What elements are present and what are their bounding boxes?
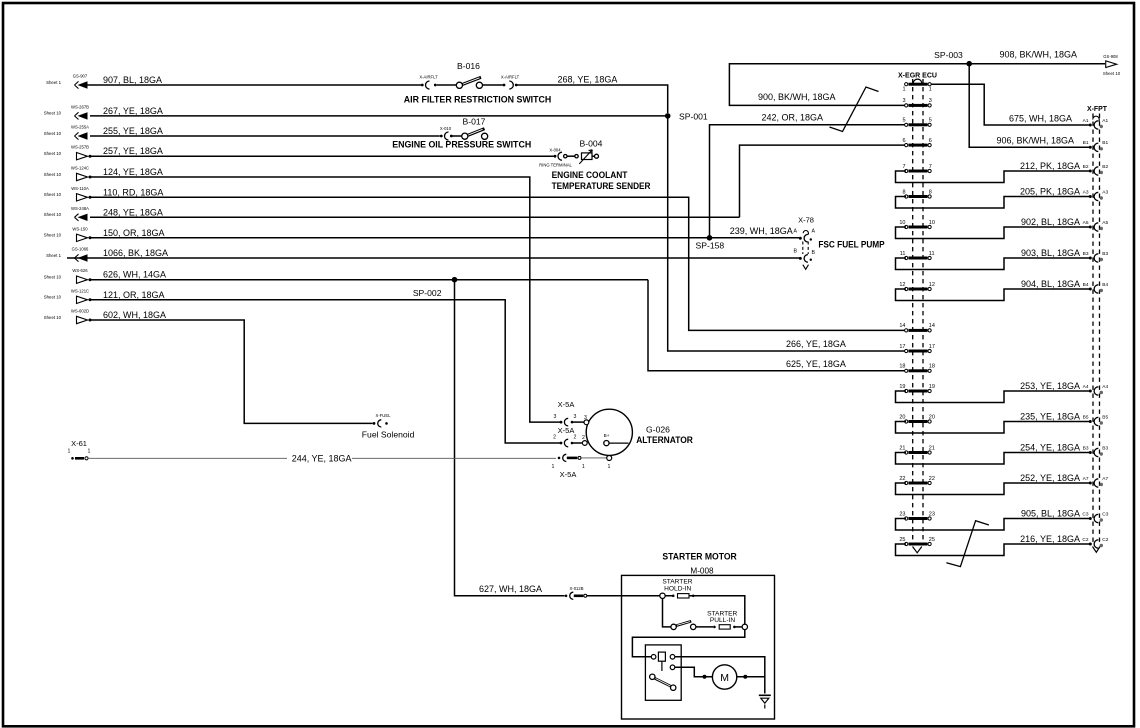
wire relay contact to motor [675, 667, 703, 677]
sheet-ref arrow row 9 wire 1066 [46, 247, 168, 262]
wire 248 riser to pin 6 [740, 145, 907, 217]
wire 244 left segment [88, 457, 287, 459]
starter hold-in terminal [660, 593, 665, 598]
connector X-AIRFLT left of B-016 [421, 84, 424, 87]
svg-text:SP-002: SP-002 [413, 288, 442, 298]
connector X-EGR ECU pin 14 [905, 329, 908, 332]
connector X-FPT pin A3 [1089, 195, 1092, 198]
connector X-FPT pin B3 [1089, 451, 1092, 454]
wire 904 loop X-EGR to X-FPT B4 [896, 289, 1090, 301]
svg-text:625, YE, 18GA: 625, YE, 18GA [786, 359, 846, 369]
svg-text:1: 1 [88, 448, 91, 454]
svg-text:GS-1066: GS-1066 [72, 247, 89, 252]
svg-text:23: 23 [899, 511, 905, 517]
svg-text:906, BK/WH, 18GA: 906, BK/WH, 18GA [996, 135, 1074, 145]
svg-text:Sheet 10: Sheet 10 [44, 295, 62, 300]
connector X-FPT pin B1 [1089, 146, 1092, 149]
svg-text:7: 7 [902, 164, 905, 170]
svg-text:11: 11 [929, 251, 935, 257]
svg-text:1: 1 [929, 87, 932, 93]
junction SP-158 [707, 235, 713, 241]
svg-text:Sheet 10: Sheet 10 [44, 151, 62, 156]
starter relay box [645, 645, 681, 700]
connector X-AIRFLT right of B-016 [503, 84, 506, 87]
svg-text:X-010: X-010 [440, 126, 452, 131]
svg-text:Sheet 1: Sheet 1 [46, 80, 61, 85]
sheet-ref arrow row 7 wire 248 [44, 206, 163, 221]
connector X-FPT pin B3 [1089, 257, 1092, 260]
svg-text:900, BK/WH, 18GA: 900, BK/WH, 18GA [758, 92, 836, 102]
svg-text:X-AIRFLT: X-AIRFLT [419, 74, 438, 79]
svg-text:WS-626: WS-626 [72, 268, 88, 273]
connector X-EGR ECU pin 22 [905, 481, 908, 484]
harness slash mark lower [946, 521, 989, 567]
svg-text:235, YE, 18GA: 235, YE, 18GA [1020, 411, 1080, 421]
sheet-ref arrow row 11 wire 121 [44, 288, 165, 303]
svg-text:FSC FUEL PUMP: FSC FUEL PUMP [818, 240, 884, 250]
svg-text:M: M [720, 672, 729, 684]
svg-text:1066, BK, 18GA: 1066, BK, 18GA [103, 248, 168, 258]
wire 903 loop X-EGR to X-FPT B3 [896, 258, 1090, 270]
svg-text:X-61: X-61 [71, 439, 87, 448]
svg-text:257, YE, 18GA: 257, YE, 18GA [103, 146, 163, 156]
wire 254 loop X-EGR to X-FPT B3 [896, 453, 1090, 465]
wire X-5A pin3 to alternator [572, 421, 585, 423]
connector X-FPT pin B2 [1089, 170, 1092, 173]
wire 239 SP-158 to X-78 A [710, 237, 800, 239]
svg-text:2: 2 [553, 434, 556, 440]
svg-text:Sheet 1: Sheet 1 [46, 253, 61, 258]
svg-text:239, WH, 18GA: 239, WH, 18GA [730, 226, 793, 236]
wire hold-in to pull-in corner [665, 596, 745, 624]
svg-text:B: B [794, 249, 798, 255]
wire 900 loop pin3 to top rail [729, 64, 1105, 106]
wire 255 row to B-017 [90, 135, 440, 137]
connector X-EGR ECU pin 12 [905, 287, 908, 290]
sheet-ref arrow row 6 wire 110 [44, 186, 164, 201]
alternator G-026 body [586, 409, 632, 455]
svg-text:B2: B2 [1102, 164, 1108, 170]
svg-text:Sheet 10: Sheet 10 [44, 172, 62, 177]
svg-text:C3: C3 [1082, 511, 1088, 517]
svg-text:Sheet 10: Sheet 10 [44, 315, 62, 320]
svg-text:675, WH, 18GA: 675, WH, 18GA [1009, 113, 1072, 123]
connector X-EGR ECU pin 19 [905, 389, 908, 392]
svg-text:PULL-IN: PULL-IN [710, 617, 736, 624]
svg-text:ENGINE OIL PRESSURE SWITCH: ENGINE OIL PRESSURE SWITCH [392, 140, 531, 150]
wire SP-001 riser to pin 17 (266) [668, 116, 906, 351]
svg-text:8: 8 [902, 189, 905, 195]
wire 244 right segment [352, 457, 556, 459]
connector X-EGR ECU pin 20 [905, 420, 908, 423]
svg-text:212, PK, 18GA: 212, PK, 18GA [1020, 161, 1080, 171]
svg-text:Sheet 10: Sheet 10 [44, 233, 62, 238]
connector X-EGR ECU pin 1 [905, 83, 908, 86]
svg-text:248, YE, 18GA: 248, YE, 18GA [103, 207, 163, 217]
starter relay blade [650, 674, 655, 679]
svg-text:B3: B3 [1102, 251, 1108, 257]
sheet-ref arrow row 10 wire 626 [44, 268, 166, 283]
connector X-78 pin A [799, 237, 802, 240]
connector X-EGR ECU dashed lines [913, 79, 923, 543]
wire 626 row to corner [90, 279, 648, 281]
starter pull-in junction [742, 624, 747, 629]
svg-text:STARTER MOTOR: STARTER MOTOR [662, 552, 737, 562]
connector X-FPT pin A5 [1089, 226, 1092, 229]
svg-text:21: 21 [899, 445, 905, 451]
svg-text:X-5A: X-5A [558, 426, 575, 435]
svg-text:B3: B3 [1102, 445, 1108, 451]
wire pin1 to X-FPT A1 [930, 84, 1090, 125]
sheet-ref arrow row 12 wire 602 [44, 309, 166, 324]
svg-text:GS-908: GS-908 [1103, 54, 1118, 59]
sheet-ref arrow row 4 wire 257 [44, 145, 163, 160]
svg-text:WS-121C: WS-121C [71, 288, 89, 293]
svg-text:253, YE, 18GA: 253, YE, 18GA [1020, 381, 1080, 391]
wire SP-002 down to starter [455, 280, 565, 596]
connector X-78 end hook [803, 265, 809, 270]
switch B-016 blade [458, 77, 482, 86]
svg-text:Fuel Solenoid: Fuel Solenoid [362, 430, 415, 440]
connector X-FPT pin A7 [1089, 482, 1092, 485]
svg-text:110, RD, 18GA: 110, RD, 18GA [103, 187, 163, 197]
svg-text:A4: A4 [1083, 384, 1089, 390]
wire B-016 to right connector [482, 84, 502, 86]
svg-text:14: 14 [929, 323, 935, 329]
starter pull-in resistor [696, 626, 713, 628]
svg-text:B4: B4 [1102, 282, 1108, 288]
svg-text:121, OR, 18GA: 121, OR, 18GA [103, 290, 165, 300]
connector X-004 of B-004 [554, 155, 557, 158]
wire 248 row [90, 216, 740, 218]
wire 110 row to pin 14 [90, 197, 906, 330]
ground symbol [759, 694, 771, 696]
wire X-012B to starter box [587, 595, 661, 597]
wire 1066 row to X-78 B [67, 257, 799, 259]
svg-text:X-AIRFLT: X-AIRFLT [501, 74, 520, 79]
svg-text:12: 12 [899, 282, 905, 288]
svg-text:ALTERNATOR: ALTERNATOR [636, 435, 693, 445]
svg-text:C2: C2 [1082, 537, 1088, 543]
sheet-ref arrow row 1 wire 907 [46, 74, 162, 89]
svg-text:1: 1 [607, 464, 610, 470]
connector X-FPT pin A1 [1089, 124, 1092, 127]
wire 212 loop X-EGR to X-FPT B2 [896, 171, 1090, 183]
svg-text:A5: A5 [1083, 220, 1089, 226]
connector X-78 dashed line [803, 242, 808, 255]
svg-text:626, WH, 14GA: 626, WH, 14GA [103, 270, 166, 280]
svg-text:18: 18 [929, 364, 935, 370]
svg-text:254, YE, 18GA: 254, YE, 18GA [1020, 442, 1080, 452]
svg-text:X-EGR ECU: X-EGR ECU [898, 70, 937, 79]
svg-text:21: 21 [929, 445, 935, 451]
svg-text:B-004: B-004 [580, 139, 603, 149]
svg-text:252, YE, 18GA: 252, YE, 18GA [1020, 473, 1080, 483]
wire 150 row to SP-158 [90, 237, 710, 239]
svg-text:B3: B3 [1083, 251, 1089, 257]
alternator terminal 3 [584, 420, 589, 425]
svg-text:25: 25 [899, 537, 905, 543]
connector X-EGR ECU pin 6 [905, 144, 908, 147]
wire 121 row down to X-5A pin2 [90, 300, 560, 443]
svg-text:602, WH, 18GA: 602, WH, 18GA [103, 310, 166, 320]
svg-text:18: 18 [899, 364, 905, 370]
starter motor M body [712, 665, 736, 689]
svg-text:WS-110A: WS-110A [71, 186, 89, 191]
svg-text:X-FUEL: X-FUEL [376, 413, 392, 418]
wire 602 row to Fuel Solenoid [90, 320, 373, 423]
connector X-EGR ECU pin 21 [905, 451, 908, 454]
connector X-EGR ECU pin 7 [905, 169, 908, 172]
svg-text:A5: A5 [1102, 220, 1108, 226]
svg-text:Sheet 10: Sheet 10 [44, 192, 62, 197]
connector X-FPT pin B5 [1089, 420, 1092, 423]
svg-text:205, PK, 18GA: 205, PK, 18GA [1020, 186, 1080, 196]
starter hold-in resistor [672, 595, 675, 598]
svg-text:X-5A: X-5A [560, 470, 577, 479]
svg-text:WS-124C: WS-124C [71, 166, 89, 171]
svg-text:SP-001: SP-001 [679, 111, 708, 121]
svg-text:902, BL, 18GA: 902, BL, 18GA [1021, 217, 1080, 227]
wire 902 loop X-EGR to X-FPT A5 [896, 227, 1090, 239]
starter relay coil terminal left [651, 655, 656, 660]
wire motor to ground rail [706, 676, 765, 678]
svg-text:903, BL, 18GA: 903, BL, 18GA [1021, 248, 1080, 258]
svg-text:244, YE, 18GA: 244, YE, 18GA [292, 454, 352, 464]
svg-text:627, WH, 18GA: 627, WH, 18GA [479, 584, 542, 594]
svg-text:WS-602D: WS-602D [71, 309, 89, 314]
svg-text:X-004: X-004 [549, 147, 561, 152]
svg-text:A1: A1 [1102, 118, 1108, 124]
svg-text:10: 10 [929, 220, 935, 226]
sheet-ref arrow row 2 wire 267 [44, 104, 163, 119]
connector X-EGR ECU pin 23 [905, 517, 908, 520]
harness slash mark upper [830, 87, 879, 132]
alternator terminal 1 [607, 456, 612, 461]
starter relay contact terminal [670, 665, 675, 670]
wire B-017 internal [452, 135, 462, 137]
svg-text:Sheet 10: Sheet 10 [44, 111, 62, 116]
connector X-5A pin 1 [558, 457, 561, 460]
svg-text:X-5A: X-5A [558, 400, 575, 409]
svg-text:TEMPERATURE SENDER: TEMPERATURE SENDER [552, 181, 651, 191]
starter motor box M-008 [622, 575, 775, 719]
wire 235 loop X-EGR to X-FPT B5 [896, 422, 1090, 434]
svg-text:266, YE, 18GA: 266, YE, 18GA [786, 339, 846, 349]
starter relay coil terminal right [670, 655, 675, 660]
connector X-EGR ECU end hook [913, 547, 922, 553]
sender B-004 terminal circles [564, 155, 567, 158]
svg-text:11: 11 [900, 251, 906, 257]
svg-text:Sheet 10: Sheet 10 [1103, 71, 1121, 76]
wire 252 loop X-EGR to X-FPT A7 [896, 483, 1090, 495]
connector X-EGR ECU pin 17 [905, 349, 908, 352]
svg-text:WS-255A: WS-255A [71, 125, 89, 130]
wire relay to right rail [675, 657, 765, 694]
svg-text:1: 1 [68, 448, 71, 454]
sheet-ref arrow row 3 wire 255 [44, 125, 163, 140]
connector X-EGR ECU pin 18 [905, 369, 908, 372]
svg-text:X-78: X-78 [798, 216, 814, 225]
svg-text:X-012B: X-012B [570, 586, 584, 591]
junction SP-002 [452, 277, 458, 283]
connector X-FPT dashed lines [1093, 114, 1100, 544]
svg-text:WS-150: WS-150 [72, 226, 88, 231]
svg-text:RING TERMINAL: RING TERMINAL [539, 162, 572, 167]
svg-text:905, BL, 18GA: 905, BL, 18GA [1021, 508, 1080, 518]
connector X-EGR ECU pin 5 [905, 123, 908, 126]
wire X-5A pin2 to alternator [572, 442, 583, 444]
svg-text:SP-003: SP-003 [934, 50, 963, 60]
wire 253 loop X-EGR to X-FPT A4 [896, 391, 1090, 403]
svg-text:904, BL, 18GA: 904, BL, 18GA [1021, 279, 1080, 289]
svg-text:19: 19 [929, 384, 935, 390]
svg-text:G-026: G-026 [646, 425, 670, 435]
svg-text:B3: B3 [1083, 445, 1089, 451]
svg-text:C2: C2 [1102, 537, 1108, 543]
wire 905 loop X-EGR to X-FPT C3 [896, 519, 1090, 531]
svg-text:6: 6 [929, 138, 932, 144]
svg-text:B4: B4 [1083, 282, 1089, 288]
svg-text:B1: B1 [1083, 140, 1089, 146]
connector X-FPT pin C2 [1089, 543, 1092, 546]
svg-text:3: 3 [574, 414, 577, 420]
wire 205 loop X-EGR to X-FPT A3 [896, 197, 1090, 209]
alternator terminal 2 [582, 441, 587, 446]
connector X-FPT pin B4 [1089, 288, 1092, 291]
svg-text:B+: B+ [604, 433, 610, 438]
svg-text:C3: C3 [1102, 511, 1108, 517]
svg-text:255, YE, 18GA: 255, YE, 18GA [103, 126, 163, 136]
svg-text:10: 10 [899, 220, 905, 226]
wire 268 from B-016 to SP-001 [517, 85, 668, 113]
wire 267 row to SP-001 [90, 115, 668, 117]
svg-text:A3: A3 [1102, 189, 1108, 195]
switch B-017 blade [463, 129, 485, 138]
svg-text:B-017: B-017 [463, 116, 486, 126]
svg-text:B5: B5 [1083, 414, 1089, 420]
svg-text:2: 2 [574, 435, 577, 441]
svg-text:WS-267B: WS-267B [71, 104, 89, 109]
junction SP-003 [966, 61, 972, 67]
svg-text:19: 19 [899, 384, 905, 390]
svg-text:WS-257B: WS-257B [71, 145, 89, 150]
svg-text:242, OR, 18GA: 242, OR, 18GA [762, 113, 824, 123]
svg-text:Sheet 10: Sheet 10 [44, 275, 62, 280]
svg-text:1: 1 [902, 87, 905, 93]
junction SP-001 [665, 113, 671, 119]
wire 257 row to B-004 [90, 155, 554, 157]
connector X-EGR ECU pin 25 [905, 542, 908, 545]
svg-text:A7: A7 [1102, 476, 1108, 482]
svg-text:5: 5 [902, 118, 905, 124]
wire pull-in to relay [632, 630, 744, 657]
svg-text:22: 22 [929, 476, 935, 482]
wire 216 loop X-EGR to X-FPT C2 [896, 544, 1090, 556]
svg-text:20: 20 [899, 414, 905, 420]
svg-text:1: 1 [552, 464, 555, 470]
svg-text:A1: A1 [1083, 118, 1089, 124]
svg-text:14: 14 [899, 323, 905, 329]
svg-text:HOLD-IN: HOLD-IN [664, 585, 691, 592]
switch B-016 pivot circles [456, 82, 462, 88]
svg-text:SP-158: SP-158 [696, 241, 725, 251]
svg-text:5: 5 [929, 118, 932, 124]
svg-text:216, YE, 18GA: 216, YE, 18GA [1020, 534, 1080, 544]
svg-text:6: 6 [902, 138, 905, 144]
svg-text:AIR FILTER RESTRICTION SWITCH: AIR FILTER RESTRICTION SWITCH [404, 95, 552, 105]
connector X-EGR ECU pin 11 [905, 256, 908, 259]
wire 244 to alternator pin1 [581, 457, 606, 459]
wire SP-158 riser to pin 5 [710, 125, 907, 238]
connector X-78 pin B [799, 257, 802, 260]
svg-text:A3: A3 [1083, 189, 1089, 195]
connector X-FPT pin C3 [1089, 517, 1092, 520]
switch B-017 pivot circles [462, 133, 468, 139]
svg-text:Sheet 10: Sheet 10 [44, 212, 62, 217]
svg-text:7: 7 [929, 164, 932, 170]
sheet-ref arrow row 8 wire 150 [44, 226, 165, 241]
svg-text:20: 20 [929, 414, 935, 420]
connector X-010 of B-017 [440, 135, 443, 138]
svg-text:ENGINE COOLANT: ENGINE COOLANT [552, 170, 628, 180]
svg-text:WS-248A: WS-248A [71, 206, 89, 211]
svg-text:17: 17 [929, 344, 935, 350]
svg-text:150, OR, 18GA: 150, OR, 18GA [103, 228, 165, 238]
svg-text:Sheet 10: Sheet 10 [44, 131, 62, 136]
svg-text:25: 25 [929, 537, 935, 543]
svg-text:A: A [812, 229, 816, 235]
connector X-FPT pin A4 [1089, 390, 1092, 393]
connector X-EGR ECU pin 8 [905, 195, 908, 198]
svg-text:B1: B1 [1102, 140, 1108, 146]
svg-text:B-016: B-016 [457, 61, 480, 71]
svg-text:B5: B5 [1102, 414, 1108, 420]
svg-text:17: 17 [899, 344, 905, 350]
svg-text:X-FPT: X-FPT [1087, 104, 1108, 113]
svg-text:22: 22 [899, 476, 905, 482]
svg-text:B2: B2 [1083, 164, 1089, 170]
starter relay coil [658, 652, 665, 661]
wire B-016 internal left [437, 84, 457, 86]
starter motor M terminals [703, 675, 707, 679]
wire B-004 internal [566, 155, 577, 157]
svg-text:3: 3 [929, 98, 932, 104]
connector X-EGR ECU pin 10 [905, 225, 908, 228]
sheet-ref arrow GS-908 [1106, 61, 1117, 68]
wire 625 to pin 18 [648, 280, 906, 371]
svg-text:23: 23 [929, 511, 935, 517]
svg-text:908, BK/WH, 18GA: 908, BK/WH, 18GA [999, 49, 1077, 59]
svg-text:1: 1 [582, 464, 585, 470]
svg-text:124, YE, 18GA: 124, YE, 18GA [103, 167, 163, 177]
wire hold-in drop [663, 599, 672, 627]
svg-text:12: 12 [929, 282, 935, 288]
wire 124 row down to X-5A pin3 [90, 177, 560, 422]
sender B-004 body [582, 153, 593, 160]
svg-text:3: 3 [553, 414, 556, 420]
svg-text:A: A [794, 229, 798, 235]
connector X-FPT end hook [1093, 547, 1101, 553]
svg-text:267, YE, 18GA: 267, YE, 18GA [103, 106, 163, 116]
connector X-EGR ECU pin 3 [905, 104, 908, 107]
svg-text:907, BL, 18GA: 907, BL, 18GA [103, 75, 162, 85]
svg-text:A4: A4 [1102, 384, 1108, 390]
svg-text:268, YE, 18GA: 268, YE, 18GA [558, 75, 618, 85]
starter switch blade [671, 624, 676, 629]
svg-text:B: B [812, 250, 816, 256]
svg-text:3: 3 [902, 98, 905, 104]
